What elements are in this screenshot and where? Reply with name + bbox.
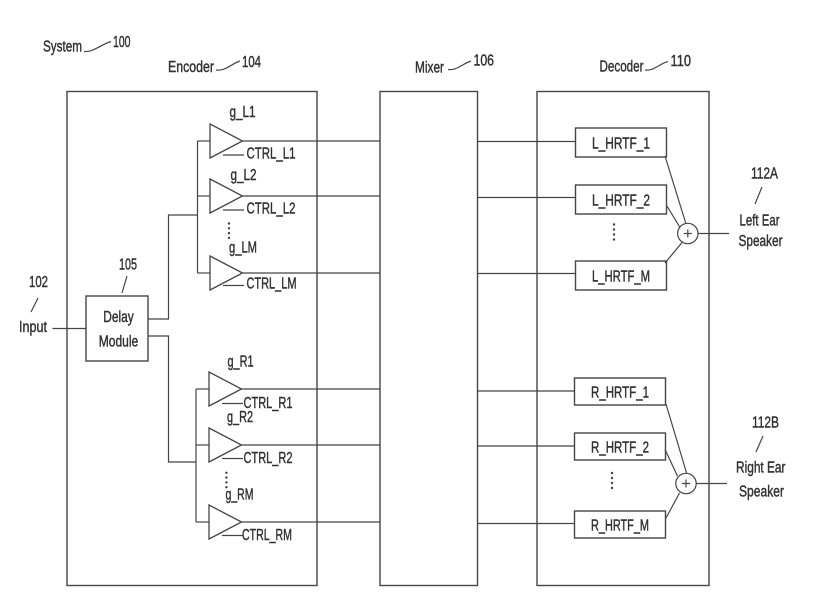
svg-text:105: 105: [119, 257, 137, 274]
svg-text:R_HRTF_2: R_HRTF_2: [591, 439, 649, 456]
svg-text:CTRL_LM: CTRL_LM: [247, 276, 297, 293]
svg-text:g_R1: g_R1: [228, 354, 254, 371]
svg-text:g_L1: g_L1: [230, 104, 256, 121]
svg-text:Module: Module: [99, 334, 139, 351]
svg-text:Speaker: Speaker: [739, 484, 785, 501]
svg-text:Left Ear: Left Ear: [740, 213, 780, 230]
svg-text:Input: Input: [19, 319, 47, 336]
svg-text:System: System: [43, 39, 82, 56]
svg-text:110: 110: [671, 53, 692, 70]
svg-text:Decoder: Decoder: [600, 59, 644, 76]
svg-text:112A: 112A: [751, 166, 778, 183]
svg-text:104: 104: [242, 54, 261, 71]
svg-text:R_HRTF_1: R_HRTF_1: [591, 384, 649, 401]
svg-text:R_HRTF_M: R_HRTF_M: [591, 517, 649, 534]
svg-text:Mixer: Mixer: [415, 59, 444, 76]
svg-text:g_L2: g_L2: [231, 167, 257, 184]
svg-text:Speaker: Speaker: [739, 233, 783, 250]
svg-text:L_HRTF_1: L_HRTF_1: [592, 135, 650, 152]
svg-text:CTRL_R2: CTRL_R2: [244, 450, 293, 467]
svg-text:102: 102: [29, 274, 48, 291]
svg-text:CTRL_L2: CTRL_L2: [247, 201, 296, 218]
svg-text:CTRL_R1: CTRL_R1: [244, 395, 293, 412]
svg-text:g_RM: g_RM: [226, 487, 254, 504]
svg-text:L_HRTF_M: L_HRTF_M: [592, 268, 650, 285]
svg-text:Right Ear: Right Ear: [736, 460, 786, 477]
svg-text:g_LM: g_LM: [229, 240, 257, 257]
svg-text:L_HRTF_2: L_HRTF_2: [592, 192, 650, 209]
svg-text:Encoder: Encoder: [168, 59, 215, 76]
svg-text:Delay: Delay: [103, 309, 134, 326]
svg-text:CTRL_L1: CTRL_L1: [247, 146, 296, 163]
svg-text:112B: 112B: [752, 415, 779, 432]
svg-text:100: 100: [113, 34, 131, 51]
svg-text:CTRL_RM: CTRL_RM: [242, 527, 292, 544]
svg-text:106: 106: [474, 52, 495, 69]
